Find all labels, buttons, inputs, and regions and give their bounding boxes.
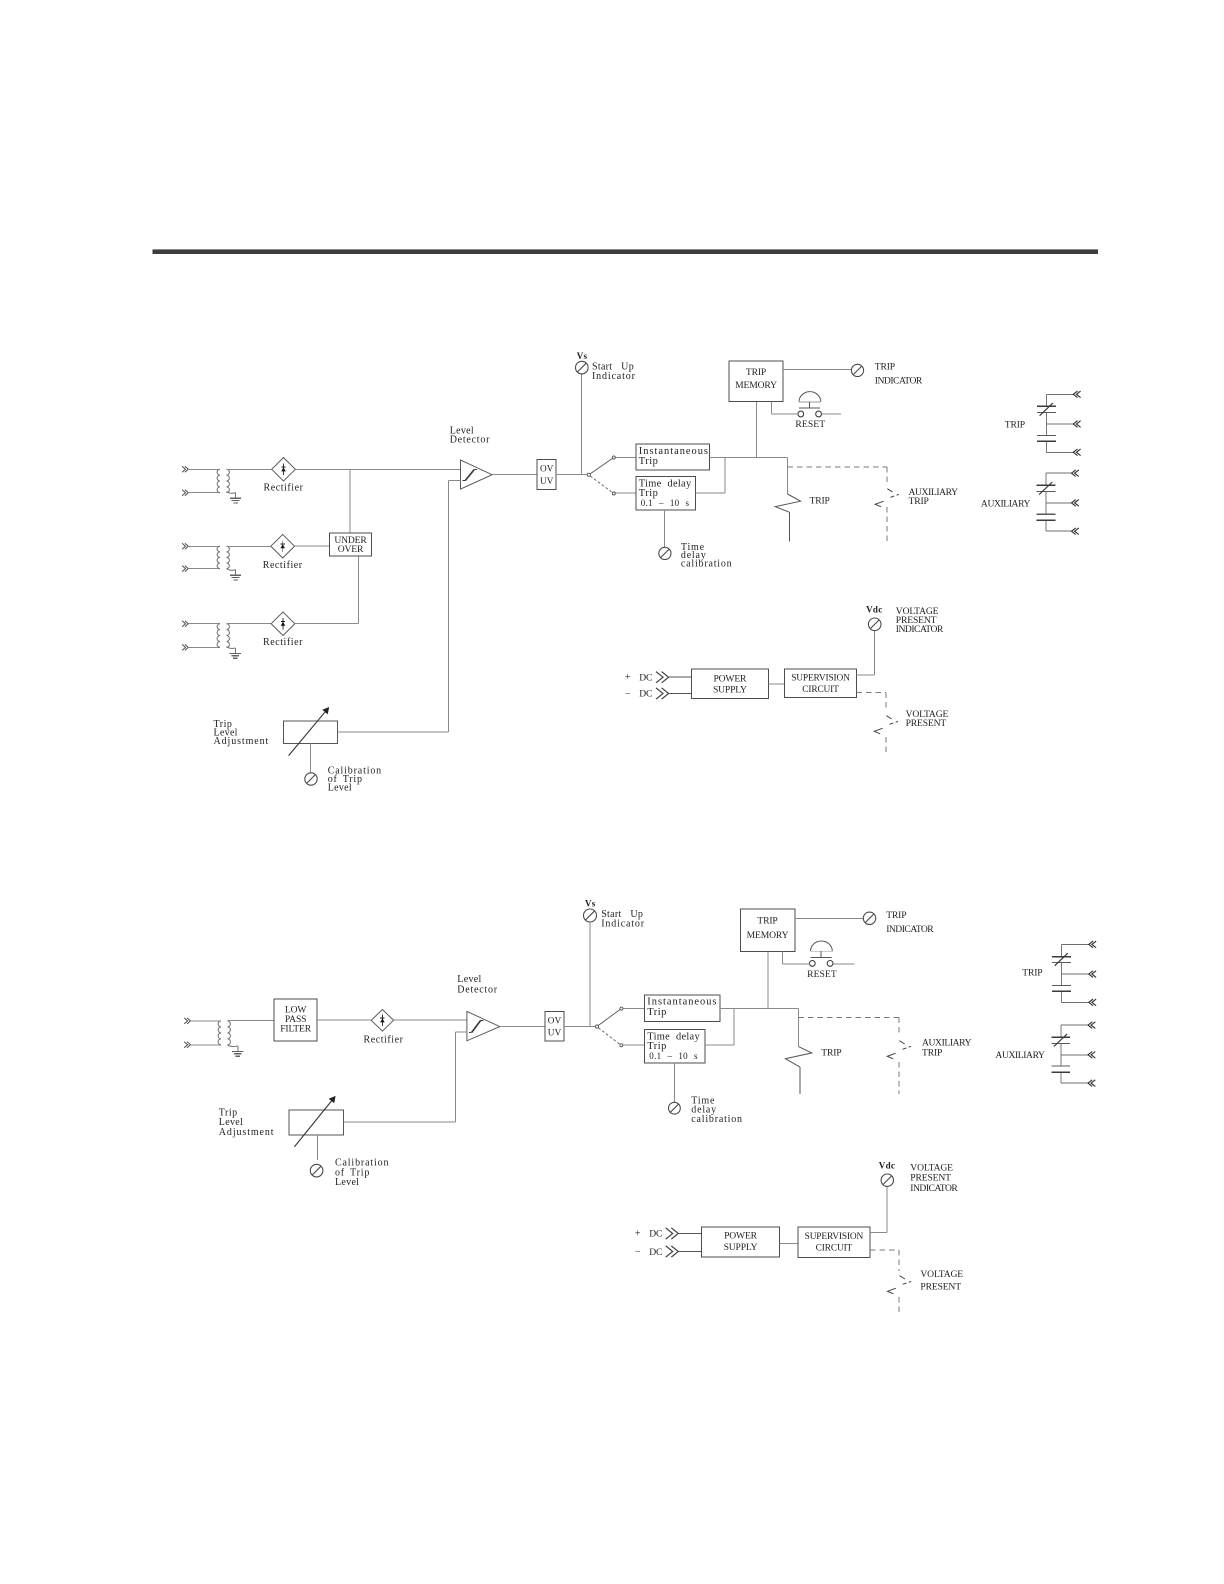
svg-text:−: − xyxy=(635,1247,641,1258)
svg-text:Trip: Trip xyxy=(647,1007,667,1018)
svg-text:INDICATOR: INDICATOR xyxy=(896,624,944,635)
svg-text:TRIP: TRIP xyxy=(922,1048,942,1059)
svg-text:+: + xyxy=(625,672,631,683)
svg-text:Vs: Vs xyxy=(585,899,596,909)
svg-text:TRIP: TRIP xyxy=(810,495,830,506)
svg-text:INDICATOR: INDICATOR xyxy=(886,924,934,935)
svg-text:0.1 – 10 s: 0.1 – 10 s xyxy=(649,1051,698,1061)
svg-text:Rectifier: Rectifier xyxy=(263,637,303,648)
svg-text:0.1 – 10 s: 0.1 – 10 s xyxy=(641,498,690,508)
svg-text:Vdc: Vdc xyxy=(866,605,882,615)
svg-text:AUXILIARY: AUXILIARY xyxy=(995,1050,1045,1061)
svg-text:SUPPLY: SUPPLY xyxy=(724,1242,758,1253)
svg-text:CIRCUIT: CIRCUIT xyxy=(816,1243,853,1253)
svg-text:TRIP: TRIP xyxy=(757,916,777,927)
svg-text:MEMORY: MEMORY xyxy=(735,380,777,391)
svg-text:Trip: Trip xyxy=(639,456,659,467)
svg-text:Adjustment: Adjustment xyxy=(214,736,270,747)
svg-text:POWER: POWER xyxy=(724,1231,758,1242)
svg-text:POWER: POWER xyxy=(713,673,747,684)
svg-text:INDICATOR: INDICATOR xyxy=(910,1183,958,1194)
svg-text:Indicator: Indicator xyxy=(592,371,636,382)
svg-text:TRIP: TRIP xyxy=(909,496,929,507)
svg-text:PRESENT: PRESENT xyxy=(920,1282,961,1293)
svg-text:OV: OV xyxy=(540,464,554,474)
svg-text:Level: Level xyxy=(457,974,481,985)
svg-text:Level: Level xyxy=(335,1177,359,1188)
svg-text:Detector: Detector xyxy=(457,984,498,995)
svg-text:−: − xyxy=(625,688,631,699)
svg-text:Vdc: Vdc xyxy=(879,1160,895,1170)
svg-text:FILTER: FILTER xyxy=(280,1024,311,1035)
svg-text:TRIP: TRIP xyxy=(1022,968,1042,979)
svg-text:RESET: RESET xyxy=(807,969,837,980)
svg-text:TRIP: TRIP xyxy=(886,910,906,921)
svg-text:SUPPLY: SUPPLY xyxy=(713,685,747,696)
svg-text:TRIP: TRIP xyxy=(746,367,766,378)
svg-text:Vs: Vs xyxy=(577,351,588,361)
svg-text:calibration: calibration xyxy=(691,1114,743,1125)
svg-text:TRIP: TRIP xyxy=(875,362,895,373)
svg-text:Level: Level xyxy=(328,782,352,793)
svg-text:AUXILIARY: AUXILIARY xyxy=(981,498,1031,509)
svg-text:OVER: OVER xyxy=(338,544,364,555)
svg-text:Indicator: Indicator xyxy=(601,919,645,930)
svg-text:MEMORY: MEMORY xyxy=(747,930,789,941)
svg-text:SUPERVISION: SUPERVISION xyxy=(805,1232,864,1242)
svg-text:INDICATOR: INDICATOR xyxy=(875,376,923,387)
svg-text:SUPERVISION: SUPERVISION xyxy=(791,674,850,684)
svg-text:Adjustment: Adjustment xyxy=(219,1127,275,1138)
svg-text:DC: DC xyxy=(649,1229,662,1240)
svg-text:Rectifier: Rectifier xyxy=(264,483,304,494)
svg-text:DC: DC xyxy=(639,673,652,684)
svg-text:PRESENT: PRESENT xyxy=(906,718,947,729)
svg-text:OV: OV xyxy=(548,1016,562,1026)
svg-text:TRIP: TRIP xyxy=(821,1048,841,1059)
svg-text:+: + xyxy=(635,1228,641,1239)
svg-text:VOLTAGE: VOLTAGE xyxy=(920,1269,963,1280)
svg-text:DC: DC xyxy=(649,1247,662,1258)
svg-text:RESET: RESET xyxy=(795,419,825,430)
svg-text:UV: UV xyxy=(540,476,554,486)
svg-text:UV: UV xyxy=(548,1028,562,1038)
svg-text:TRIP: TRIP xyxy=(1005,420,1025,431)
svg-text:Rectifier: Rectifier xyxy=(364,1035,404,1046)
svg-text:Rectifier: Rectifier xyxy=(263,560,303,571)
svg-text:CIRCUIT: CIRCUIT xyxy=(802,685,839,695)
svg-text:Detector: Detector xyxy=(450,435,491,446)
svg-text:calibration: calibration xyxy=(681,559,733,570)
svg-text:DC: DC xyxy=(639,689,652,700)
